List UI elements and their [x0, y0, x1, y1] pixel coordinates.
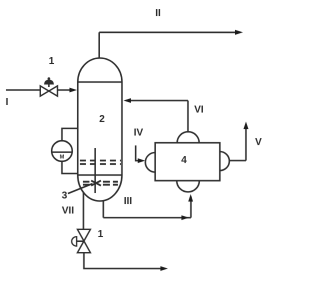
svg-text:IV: IV: [134, 128, 144, 139]
svg-text:1: 1: [49, 56, 55, 67]
tray dashed line upper row 2: [80, 163, 121, 165]
column vessel 2 bottom tangent line: [78, 174, 122, 176]
wire III horizontal run: [103, 217, 191, 219]
dip tube inside column: [94, 148, 96, 193]
arrowhead III (rightward, before corner): [181, 215, 189, 220]
column vessel 2 top dome: [78, 58, 122, 82]
svg-text:M: M: [60, 155, 65, 161]
wire IV elbow: [136, 145, 142, 160]
wire III drop from bottom head: [102, 200, 104, 217]
bottom valve actuator stem: [77, 240, 84, 242]
svg-text:1: 1: [98, 229, 104, 240]
wire I (feed line from left): [6, 89, 40, 91]
tray dashed line upper row 1: [80, 160, 121, 162]
wire III riser into bottom bump: [190, 197, 192, 218]
left loop upper pipe: [62, 128, 78, 140]
arrowhead III up into bump: [188, 194, 193, 202]
wire V vertical riser: [245, 126, 247, 161]
column vessel 2 dome seam line: [78, 81, 122, 83]
wire VI vertical from exchanger top: [187, 101, 189, 132]
vessel 4 top bump: [177, 132, 199, 143]
leader line from label 3 to X: [68, 184, 93, 194]
svg-text:I: I: [6, 97, 9, 108]
svg-text:4: 4: [181, 155, 187, 166]
svg-text:VI: VI: [194, 105, 204, 116]
column vessel 2 shell right wall: [121, 82, 123, 175]
column vessel 2 bottom head: [78, 175, 122, 201]
tray dashed line lower row 1: [83, 181, 118, 183]
arrowhead V: [243, 122, 248, 130]
bottom valve actuator disc: [72, 237, 77, 247]
svg-text:3: 3: [62, 191, 68, 202]
arrowhead VII: [160, 266, 168, 271]
vessel 4 bottom bump: [177, 181, 200, 192]
svg-text:VII: VII: [62, 206, 74, 217]
instrument chord line: [52, 151, 72, 153]
heat exchanger vessel 4 body: [155, 143, 220, 181]
svg-text:III: III: [124, 196, 133, 207]
vessel 4 left bump: [145, 153, 155, 173]
tray dashed line lower row 2: [83, 184, 118, 186]
arrowhead into column left nozzle: [69, 88, 77, 93]
pump/instrument circle: [52, 141, 73, 162]
valve 1 (bottom, vertical): [77, 229, 90, 252]
arrowhead II: [235, 30, 243, 35]
wire VII outlet from bottom head: [82, 192, 84, 229]
svg-text:2: 2: [99, 114, 105, 125]
vessel 4 right bump: [220, 152, 230, 171]
valve 1 actuator dome: [45, 80, 54, 84]
valve 1 actuator knob: [48, 77, 51, 80]
wire II riser from dome: [98, 32, 100, 58]
left loop lower pipe: [62, 161, 78, 173]
svg-text:V: V: [255, 137, 262, 148]
wire VII bottom run: [84, 253, 164, 269]
arrowhead IV: [138, 158, 145, 163]
arrowhead VI into column: [123, 98, 131, 103]
nozzle X mark (item 3): [91, 181, 101, 186]
wire I (valve to column segment): [57, 89, 74, 91]
svg-text:II: II: [155, 8, 161, 19]
valve 1 actuator stem: [48, 80, 50, 87]
wire VI horizontal into column: [126, 100, 187, 102]
wire V horizontal from right bump: [229, 160, 246, 162]
wire II horizontal run: [99, 31, 239, 33]
column vessel 2 shell left wall: [77, 82, 79, 175]
valve 1 (control valve on feed line): [40, 86, 57, 96]
